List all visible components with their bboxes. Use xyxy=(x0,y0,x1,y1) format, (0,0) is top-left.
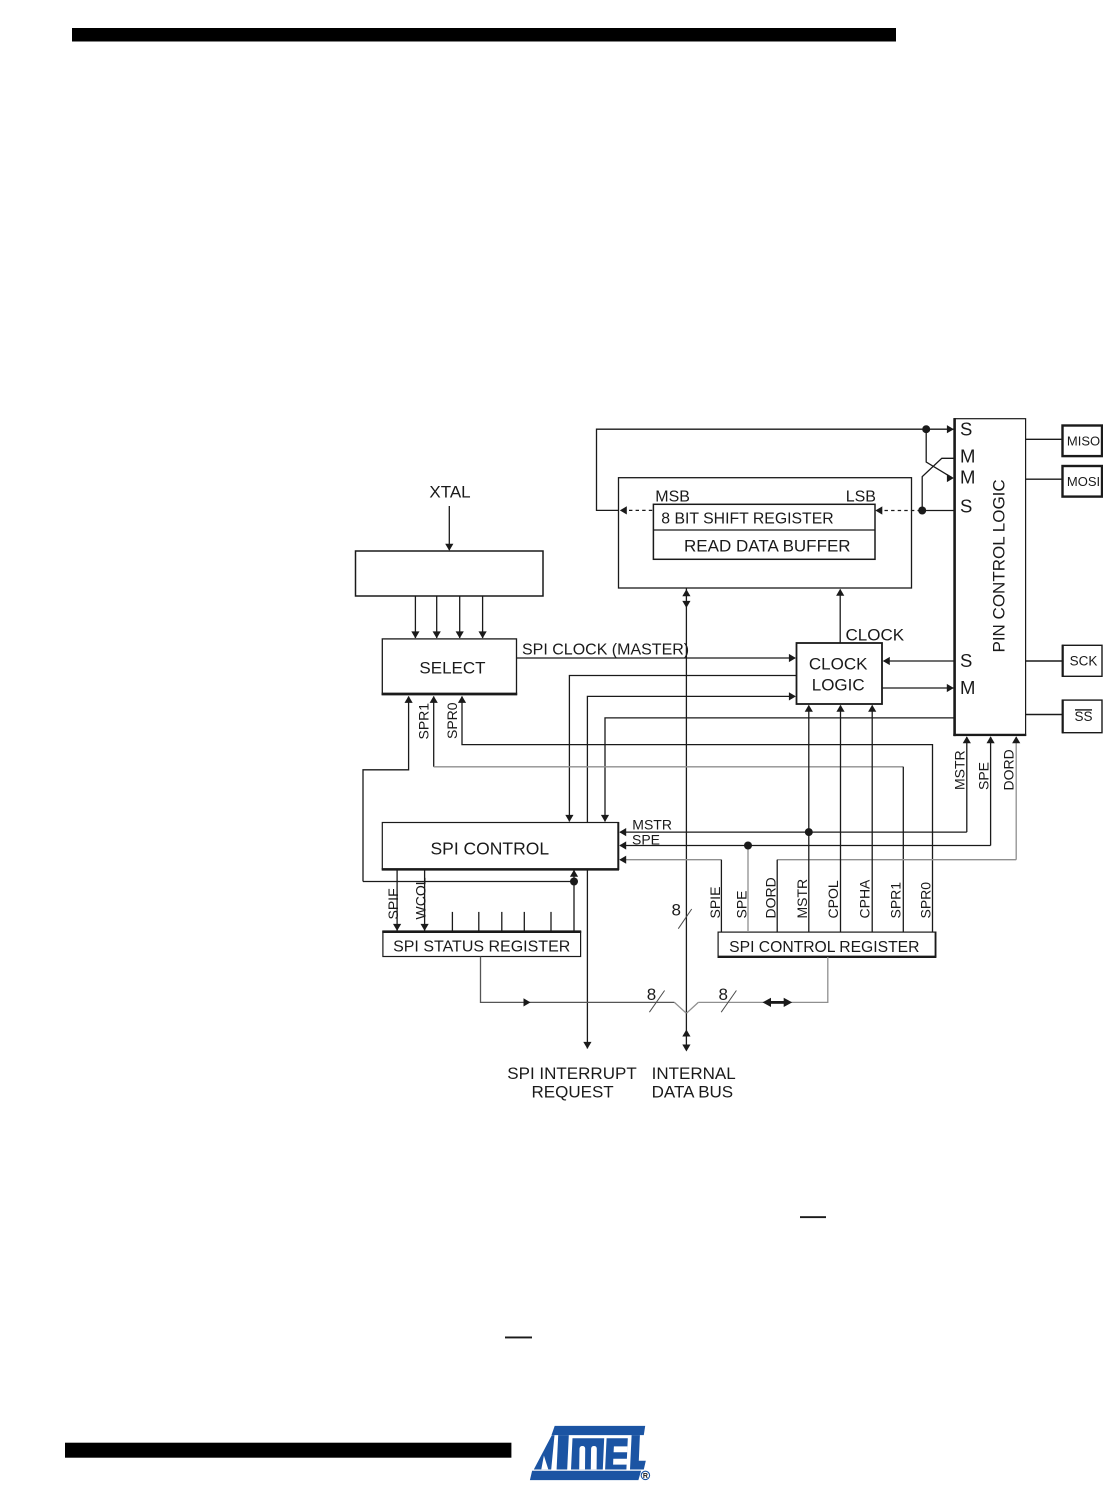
svg-text:LSB: LSB xyxy=(846,489,876,506)
arrowhead: divider-select 2 xyxy=(433,631,441,638)
svg-text:SPI INTERRUPT: SPI INTERRUPT xyxy=(507,1064,636,1083)
wire: dot3 down to status register xyxy=(573,882,575,932)
arrowhead: msb left xyxy=(620,506,627,514)
wire: dord bit vertical xyxy=(776,860,778,932)
svg-text:M: M xyxy=(960,677,975,698)
svg-text:SPI CONTROL REGISTER: SPI CONTROL REGISTER xyxy=(729,939,919,956)
junction dot2 xyxy=(918,507,926,515)
svg-text:WCOL: WCOL xyxy=(413,877,429,919)
Atmel logo xyxy=(530,1426,650,1480)
arrowhead: mstr bit into clock logic xyxy=(805,705,813,712)
arrowhead: clock into shift register xyxy=(836,589,844,596)
svg-text:SPE: SPE xyxy=(976,762,992,790)
arrowhead: spr0 into select xyxy=(458,696,466,703)
wire: bus below notch xyxy=(685,1013,687,1047)
arrowhead: status output right xyxy=(524,998,531,1006)
wire: clock loop B to clock logic xyxy=(587,696,795,822)
arrowhead: mstr into pin control bottom xyxy=(963,736,971,743)
svg-text:SPI STATUS REGISTER: SPI STATUS REGISTER xyxy=(393,938,570,955)
svg-text:MSTR: MSTR xyxy=(794,879,810,919)
arrowhead: bidir left xyxy=(763,998,772,1007)
footer bar xyxy=(65,1443,511,1458)
wire: status register output to bus xyxy=(481,957,675,1003)
arrowhead: loop A into spi control xyxy=(565,815,573,822)
wire: xtal to divider xyxy=(448,506,450,550)
dashed msb input xyxy=(629,509,653,511)
pin control logic thick bottom edge xyxy=(953,734,1026,736)
arrowhead: cpol bit into clock logic xyxy=(836,705,844,712)
arrowhead: dord into pin control bottom xyxy=(1012,736,1020,743)
wire: crossing diag from dot1 to M2 xyxy=(926,429,952,478)
spi status register box xyxy=(383,932,581,957)
svg-text:8: 8 xyxy=(647,985,656,1004)
wire: pin control to spi control C xyxy=(605,718,954,822)
svg-text:MSTR: MSTR xyxy=(952,750,968,790)
wire: miso line xyxy=(1026,438,1063,440)
svg-text:DORD: DORD xyxy=(763,877,779,918)
wire: divider to select 1 xyxy=(414,596,416,638)
wire: dot2 to S2 pin xyxy=(922,510,954,512)
wire: spe right vertical to pin control xyxy=(990,737,992,846)
junction dot3 spi control bottom xyxy=(570,878,578,886)
svg-text:SPR1: SPR1 xyxy=(416,703,432,740)
wire: spr1 net horizontal (gray) xyxy=(434,766,904,768)
bus notch left diagonal xyxy=(674,1002,686,1013)
wire: clock enable loop A xyxy=(569,676,796,822)
clock logic box U3 xyxy=(797,643,883,704)
arrowhead: M into pin control xyxy=(947,684,954,692)
wire: net1 horizontal into dot xyxy=(363,881,574,883)
wire: mstr bit vertical to clock logic xyxy=(808,706,810,933)
status register tick 4 xyxy=(523,912,525,932)
outer shift-register box xyxy=(619,478,912,588)
wire: cpol bit vertical to clock logic xyxy=(840,706,842,933)
select box U2 xyxy=(382,639,516,695)
junction dot1 xyxy=(922,425,930,433)
wire: dord net horizontal (right segment, gray) xyxy=(777,859,1016,861)
bidir shaft xyxy=(769,1001,786,1004)
MOSI pad box xyxy=(1063,466,1103,497)
wire: spr1 net vertical to select xyxy=(433,697,435,767)
svg-text:MISO: MISO xyxy=(1067,434,1100,449)
svg-text:PIN CONTROL LOGIC: PIN CONTROL LOGIC xyxy=(990,479,1009,652)
junction dot mstr xyxy=(805,828,813,836)
divider box U1 xyxy=(356,551,544,596)
spi control register thick bottom edge xyxy=(718,956,937,958)
status register tick 3 xyxy=(501,912,503,932)
arrowhead: loop B into clock logic xyxy=(789,692,796,700)
MISO pad box xyxy=(1063,426,1103,457)
wire: spie bit vertical xyxy=(720,860,722,932)
svg-text:M: M xyxy=(960,467,975,488)
arrowhead: S1 pin xyxy=(947,425,954,433)
svg-text:SPI CONTROL: SPI CONTROL xyxy=(430,839,549,859)
wire: divider to select 3 xyxy=(459,596,461,638)
svg-text:SCK: SCK xyxy=(1070,654,1098,669)
logo letter M xyxy=(571,1438,604,1469)
arrowhead: C into spi control xyxy=(601,815,609,822)
arrowhead: divider-select 3 xyxy=(456,631,464,638)
arrowhead: spi interrupt down xyxy=(583,1042,591,1049)
svg-text:READ DATA BUFFER: READ DATA BUFFER xyxy=(684,537,851,556)
arrowhead: shift bus up xyxy=(682,589,690,596)
wire: spif to status register xyxy=(396,869,398,931)
svg-text:LOGIC: LOGIC xyxy=(812,676,865,695)
logo bottom bar xyxy=(530,1471,641,1480)
bus slash on vertical xyxy=(678,909,691,929)
spi control thick right edge xyxy=(617,822,619,870)
svg-text:8: 8 xyxy=(672,900,681,919)
svg-text:SPR0: SPR0 xyxy=(918,882,934,919)
status register tick 2 xyxy=(478,912,480,932)
svg-text:SPI CLOCK (MASTER): SPI CLOCK (MASTER) xyxy=(522,642,689,659)
spi control box U5 xyxy=(382,823,618,870)
wire: sck line xyxy=(1026,660,1063,662)
arrowhead: spe into pin control bottom xyxy=(987,736,995,743)
svg-text:8: 8 xyxy=(719,985,728,1004)
arrowhead: net1 into select xyxy=(405,696,413,703)
svg-text:8 BIT SHIFT REGISTER: 8 BIT SHIFT REGISTER xyxy=(661,511,833,528)
overline mark 1 xyxy=(800,1216,826,1218)
wire: dot3 up-arrow shaft xyxy=(573,871,575,882)
svg-text:XTAL: XTAL xyxy=(429,483,470,502)
pin control logic thick left edge xyxy=(953,418,956,736)
wire: pin control S to clock logic xyxy=(884,660,955,662)
arrowhead: spr1 into select xyxy=(430,696,438,703)
SCK pad box xyxy=(1063,645,1103,676)
svg-text:R: R xyxy=(643,1473,648,1480)
arrowhead: xtal down xyxy=(445,544,453,551)
svg-text:CLOCK: CLOCK xyxy=(809,655,868,674)
bus notch right diagonal xyxy=(686,1002,698,1013)
arrowhead: spie into spi control xyxy=(619,856,626,864)
spi status register thick top edge xyxy=(382,930,581,933)
shift/read divider line xyxy=(653,529,875,531)
arrowhead: dot3 into spi control xyxy=(570,870,578,877)
arrowhead: lsb left xyxy=(875,506,882,514)
spi control register box xyxy=(718,932,936,957)
svg-text:REQUEST: REQUEST xyxy=(532,1083,614,1102)
bus slash right of notch xyxy=(721,991,736,1013)
wire: mstr right vertical to pin control xyxy=(966,737,968,832)
junction dot spe xyxy=(744,842,752,850)
svg-text:SS: SS xyxy=(1074,709,1092,724)
arrowhead: spe into spi control xyxy=(619,841,626,849)
wire: ss line xyxy=(1026,714,1063,716)
wire: spr1 bit vertical xyxy=(902,767,904,932)
pin control logic box U4 xyxy=(954,419,1025,736)
wire: mosi line xyxy=(1026,478,1063,480)
wire: spe net horizontal xyxy=(620,845,991,847)
svg-text:SPIF: SPIF xyxy=(385,888,401,919)
wire: divider to select 2 xyxy=(436,596,438,638)
wire: spr0 net horizontal xyxy=(462,697,933,933)
svg-text:M: M xyxy=(960,446,975,467)
wire: dot1 to S1 pin xyxy=(926,428,953,430)
arrowhead: shift bus down xyxy=(682,601,690,608)
svg-text:DATA BUS: DATA BUS xyxy=(652,1083,734,1102)
svg-text:MSB: MSB xyxy=(655,489,690,506)
arrowhead: wcol into status register xyxy=(421,924,429,931)
svg-text:S: S xyxy=(960,419,972,440)
status register tick 5 xyxy=(550,912,552,932)
arrowhead: mstr into spi control xyxy=(619,828,626,836)
svg-text:SPR1: SPR1 xyxy=(887,882,903,919)
svg-text:SELECT: SELECT xyxy=(419,659,485,678)
logo letter A xyxy=(534,1435,555,1469)
arrowhead: cpha bit into clock logic xyxy=(868,705,876,712)
wire: control register output to bus (gray) xyxy=(698,957,828,1002)
svg-text:S: S xyxy=(960,496,972,517)
arrowhead: spi clock into clock logic xyxy=(789,654,796,662)
svg-text:SPIE: SPIE xyxy=(707,887,723,919)
wire: crossing diag M1 stub to dot2 xyxy=(922,458,954,510)
dashed lsb input xyxy=(885,510,923,512)
spi control thick bottom edge xyxy=(382,868,619,871)
wire: cpha bit vertical to clock logic xyxy=(871,706,873,933)
svg-text:CPOL: CPOL xyxy=(825,880,841,918)
logo letter T xyxy=(557,1435,569,1469)
wire: internal data bus vertical xyxy=(685,588,687,1013)
svg-text:SPE: SPE xyxy=(733,890,749,918)
svg-text:S: S xyxy=(960,650,972,671)
SS pad box xyxy=(1063,700,1103,733)
arrowhead: bus bottom down xyxy=(682,1045,690,1052)
svg-text:MSTR: MSTR xyxy=(632,817,672,833)
wire: clock logic to shift register xyxy=(839,590,841,644)
wire: spi clock master select to clock logic xyxy=(517,657,796,659)
wire: mstr net horizontal xyxy=(620,831,967,833)
svg-text:SPE: SPE xyxy=(632,831,660,847)
arrowhead: M2 pin xyxy=(947,474,954,482)
status register tick 1 xyxy=(451,912,453,932)
arrowhead: bidir right xyxy=(784,998,793,1007)
select box thick bottom edge xyxy=(382,693,518,696)
spi control register thick right edge xyxy=(935,932,937,958)
wire: dord right vertical to pin control (gray) xyxy=(1015,737,1017,860)
arrowhead: spif into status register xyxy=(393,924,401,931)
header bar xyxy=(72,28,896,42)
arrowhead: divider-select 4 xyxy=(479,631,487,638)
overline mark 2 xyxy=(505,1337,532,1339)
wire: divider to select 4 xyxy=(482,596,484,638)
wire: clock logic M to pin control xyxy=(882,687,954,689)
svg-text:DORD: DORD xyxy=(1001,749,1017,790)
logo letter L xyxy=(630,1435,646,1469)
arrowhead: bus bottom up xyxy=(682,1030,690,1037)
svg-text:SPR0: SPR0 xyxy=(444,702,460,739)
wire: wcol to status register xyxy=(424,869,426,931)
arrowhead: S into clock logic xyxy=(883,657,890,665)
svg-text:MOSI: MOSI xyxy=(1067,474,1100,489)
wire: spie net horizontal (left segment) xyxy=(620,859,721,861)
logo letter E xyxy=(605,1438,628,1469)
svg-text:INTERNAL: INTERNAL xyxy=(652,1064,736,1083)
logo registered mark xyxy=(641,1471,649,1479)
arrowhead: divider-select 1 xyxy=(411,631,419,638)
logo top bar xyxy=(552,1426,646,1435)
bus slash left of notch xyxy=(649,991,664,1013)
inner shift register box xyxy=(653,504,875,559)
wire: top wrap msb to S pin xyxy=(597,429,927,510)
svg-text:CPHA: CPHA xyxy=(856,879,872,919)
wire: spe bit vertical (gray) xyxy=(747,846,749,933)
svg-text:CLOCK: CLOCK xyxy=(846,626,905,645)
wire: spi interrupt request vertical xyxy=(586,869,588,1049)
wire: net1 select feedback path xyxy=(363,697,409,882)
